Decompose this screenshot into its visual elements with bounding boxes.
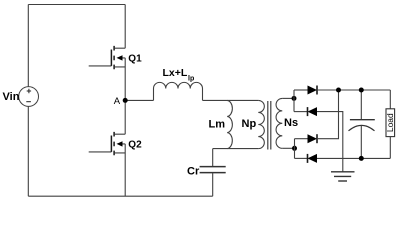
wire: bottom rail [28,195,212,197]
wire: primary return down to Cr [212,149,214,167]
junction: capacitor top on positive rail [359,88,364,93]
wire: output capacitor top lead [360,90,362,120]
svg-text:A: A [114,96,121,107]
wire: input loop top rail [28,4,125,6]
inductor Lm (magnetizing) [227,100,232,148]
wire: secondary bottom node to D3/D4 branch [294,139,296,159]
transistor Q1 [89,46,126,69]
transformer core [268,101,271,150]
wire: left rail upper (Vin+ to top rail) [27,5,29,87]
svg-text:Lm: Lm [209,118,226,130]
transformer T1 primary winding Np [258,100,264,148]
wire: secondary top lead [282,97,294,99]
ground [331,172,355,181]
transistor Q1 body arrow [117,55,123,60]
wire: secondary top node to D1/D2 branch [293,90,295,112]
svg-text:Load: Load [385,113,395,132]
wire: D3 cathode riser to positive rail [317,90,339,139]
wire: secondary bottom lead [282,147,294,149]
svg-text:Q2: Q2 [128,139,142,150]
diode D3 [308,134,318,143]
wire: node A to resonant inductor [125,99,153,101]
wire: D2 anode to negative bus [317,112,343,159]
capacitor Co (output, polarized) [349,120,375,131]
wire: node A to Q2 drain [124,100,126,134]
wire: D4 cathode lead [295,157,308,159]
svg-text:Np: Np [242,118,257,130]
wire: inductor to transformer primary top [203,99,259,101]
wire: output capacitor bottom lead [360,126,362,159]
wire: load top lead [389,90,391,109]
wire: Q2 source to bottom rail [124,144,126,196]
junction: secondary top node [292,96,297,101]
wire: D2 cathode lead [294,111,308,113]
wire: Q1 source to node A [124,58,126,101]
node A junction [123,98,128,103]
junction: D3 riser on positive rail [336,88,341,93]
wire: D1 anode lead [294,89,308,91]
svg-text:Cr: Cr [187,165,200,177]
wire: output negative rail [317,157,390,159]
capacitor Cr [200,167,226,173]
svg-text:Ns: Ns [284,117,298,129]
wire: half-bridge rail, top to Q1 drain [124,5,126,49]
diode D4 [308,154,318,163]
transistor Q2 body arrow [117,141,123,146]
resistor Load [386,109,395,137]
wire: Cr to bottom rail [212,173,214,196]
wire: D3 anode lead [295,138,308,140]
wire: left rail lower (Vin- to bottom rail) [27,106,29,196]
wire: primary bottom return [213,148,259,150]
diode D1 [308,86,318,95]
junction: secondary bottom node [292,146,297,151]
transistor Q2 [89,132,126,155]
svg-text:Vin: Vin [3,91,20,103]
junction: capacitor bottom on negative rail [359,156,364,161]
svg-text:Q1: Q1 [128,53,142,64]
inductor Lx+Llp [154,82,203,100]
svg-text:Lx+L: Lx+L [163,67,188,79]
wire: negative bus to ground [342,158,344,171]
transformer T1 secondary winding Ns [276,98,282,148]
source Vin [19,87,39,107]
wire: output positive rail [317,89,390,91]
svg-text:lp: lp [188,76,194,83]
wire: load bottom lead [389,137,391,159]
diode D2 [308,107,318,116]
